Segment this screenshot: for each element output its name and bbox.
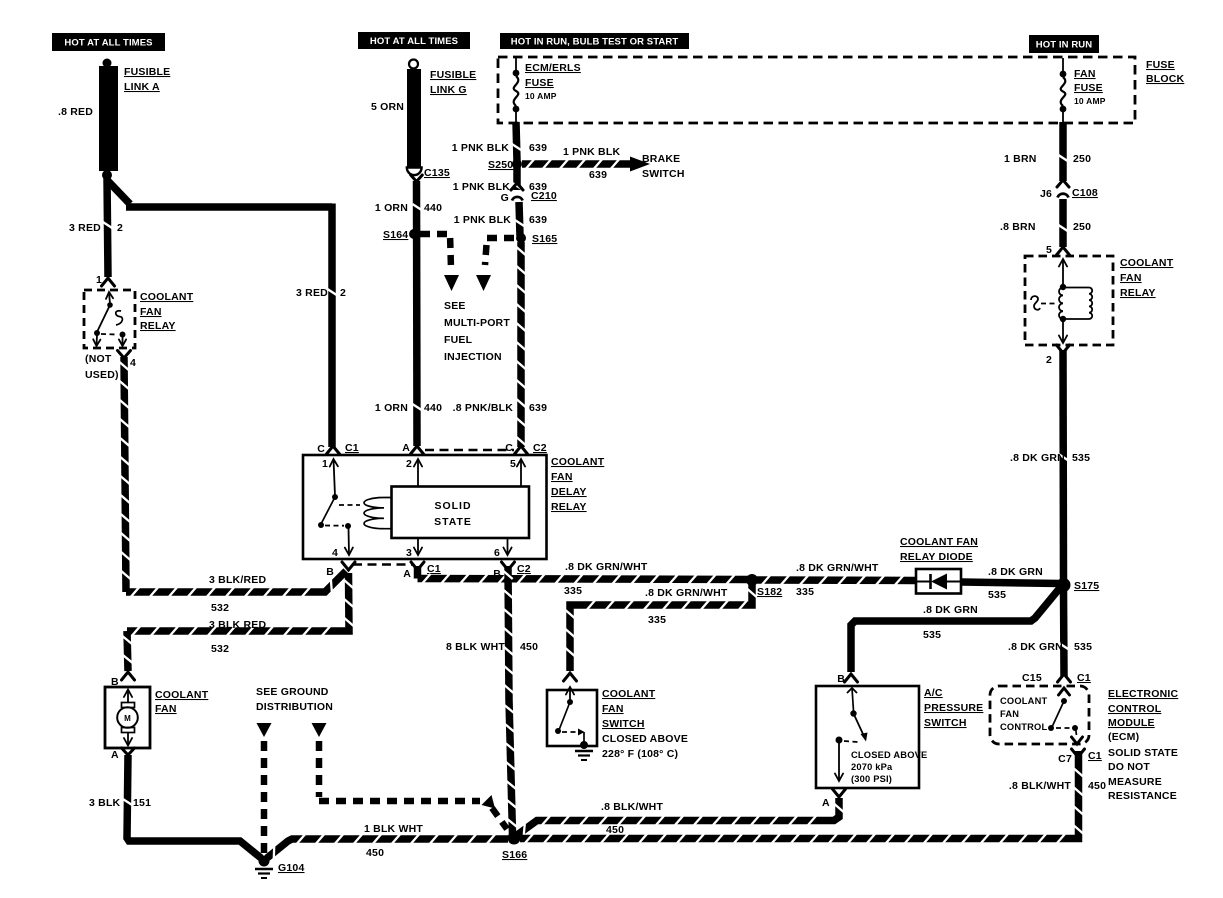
svg-text:335: 335 — [648, 614, 666, 626]
svg-text:FUSIBLE: FUSIBLE — [430, 69, 476, 81]
svg-text:535: 535 — [1074, 641, 1092, 653]
fuse block outline — [498, 57, 1135, 123]
dashed branch to multi-port fuel injection (left) — [420, 234, 459, 291]
svg-text:532: 532 — [211, 643, 229, 655]
delay relay pin C C1 terminal — [317, 442, 359, 455]
svg-text:.8 PNK/BLK: .8 PNK/BLK — [453, 402, 514, 414]
svg-text:S164: S164 — [383, 229, 408, 241]
wire 3 BLK 151 — [123, 755, 261, 858]
splice S166 label — [502, 849, 527, 861]
delay relay pin 6 arrow — [494, 538, 512, 559]
ecm pin C15 C1 terminal — [1022, 672, 1091, 684]
coolant fan switch note — [602, 733, 688, 760]
svg-text:C210: C210 — [531, 190, 557, 202]
wire label .8 DK GRN 535 (branch) — [923, 604, 978, 641]
delay relay pin 3 arrow — [406, 538, 422, 559]
svg-text:639: 639 — [529, 142, 547, 154]
svg-text:FUSE: FUSE — [1146, 59, 1175, 71]
svg-text:2: 2 — [340, 287, 346, 299]
svg-text:250: 250 — [1073, 153, 1091, 165]
wire .8 DK GRN/WHT 335 (pin3 to S182) — [418, 566, 749, 584]
wire label .8 BLK/WHT 450 (right) — [1009, 780, 1106, 792]
fusible link G label — [430, 69, 476, 96]
coolant fan switch S1 contacts — [555, 687, 585, 743]
svg-text:440: 440 — [424, 202, 442, 214]
svg-text:MULTI-PORT: MULTI-PORT — [444, 317, 510, 329]
svg-text:S182: S182 — [757, 586, 782, 598]
svg-text:3 BLK/RED: 3 BLK/RED — [209, 574, 266, 586]
see multi-port fuel injection label — [444, 300, 510, 363]
svg-text:FUSIBLE: FUSIBLE — [124, 66, 170, 78]
delay relay connector dash (bottom) — [353, 563, 412, 566]
coolant fan relay diode D1 — [916, 569, 961, 594]
a/c pressure switch outline — [816, 686, 919, 788]
svg-text:S166: S166 — [502, 849, 527, 861]
ecm coolant fan control label — [1000, 696, 1047, 732]
svg-text:SWITCH: SWITCH — [924, 717, 967, 729]
svg-text:1: 1 — [322, 458, 328, 470]
wire 1 BRN 250 — [1058, 122, 1067, 181]
svg-text:.8 DK GRN: .8 DK GRN — [923, 604, 978, 616]
wire label 3 RED 2 (branch) — [296, 287, 346, 299]
svg-text:B: B — [326, 566, 334, 578]
wire label 1 PNK BLK 639 (brake) — [563, 146, 620, 181]
coolant fan relay (right) label — [1120, 257, 1174, 299]
svg-text:SEE: SEE — [444, 300, 466, 312]
svg-text:S165: S165 — [532, 233, 557, 245]
coolant fan relay (left) pin 1 — [96, 274, 115, 286]
svg-text:RELAY DIODE: RELAY DIODE — [900, 551, 973, 563]
fuse ECM/ERLS label — [525, 62, 581, 101]
wire 1 PNK BLK 639 (C210 to S165) — [515, 202, 524, 236]
svg-text:A: A — [111, 749, 119, 761]
svg-text:COOLANT: COOLANT — [1120, 257, 1174, 269]
bus label HOT IN RUN, BULB TEST OR START — [500, 33, 689, 49]
coolant fan motor symbol — [117, 690, 138, 746]
bus label HOT AT ALL TIMES (left) — [52, 33, 165, 51]
svg-text:C2: C2 — [533, 442, 547, 454]
svg-text:ELECTRONIC: ELECTRONIC — [1108, 688, 1178, 700]
wire label .8 DK GRN 535 (upper) — [1010, 452, 1090, 464]
see ground distribution label — [256, 686, 333, 713]
svg-text:C1: C1 — [345, 442, 359, 454]
fuse ECM/ERLS — [513, 58, 520, 123]
connector C210 — [501, 183, 557, 204]
splice S164 — [409, 229, 419, 239]
coolant fan delay relay outline — [303, 455, 547, 559]
svg-text:335: 335 — [564, 585, 582, 597]
svg-text:.8 BLK/WHT: .8 BLK/WHT — [1009, 780, 1071, 792]
wire .8 BLK/WHT 450 (ECM to S166) — [520, 751, 1083, 843]
splice S164 label — [383, 229, 408, 241]
coolant fan relay (left) label — [140, 291, 194, 332]
coolant fan relay (right) outline — [1025, 256, 1113, 345]
coolant fan relay (right) coil K1 — [1059, 259, 1092, 343]
svg-text:.8 DK GRN: .8 DK GRN — [988, 566, 1043, 578]
wire 1 ORN 440 — [411, 175, 423, 446]
coolant fan outline — [105, 687, 150, 748]
svg-text:639: 639 — [589, 169, 607, 181]
wire .8 PNK/BLK 639 — [516, 242, 525, 447]
svg-text:COOLANT: COOLANT — [1000, 696, 1047, 706]
wire .8 DK GRN 535 (relay to S175) — [1058, 350, 1067, 580]
wire 3 BLK/RED 532 — [119, 357, 346, 597]
wire label 1 BLK WHT 450 — [364, 823, 423, 859]
svg-text:1 PNK BLK: 1 PNK BLK — [454, 214, 511, 226]
svg-text:532: 532 — [211, 602, 229, 614]
wire .8 BRN 250 — [1058, 199, 1067, 247]
coolant fan relay (right) pin 5 — [1046, 244, 1070, 256]
bus label HOT IN RUN (right) — [1029, 35, 1099, 53]
wire label .8 BLK/WHT 450 (left) — [601, 801, 663, 836]
svg-text:SWITCH: SWITCH — [602, 718, 645, 730]
wire .8 DK GRN 535 (S175 to A/C switch) — [851, 589, 1059, 672]
fuse FAN — [1060, 58, 1067, 123]
solid state label — [434, 500, 472, 528]
splice S175 label — [1074, 580, 1099, 592]
delay relay switch — [318, 494, 360, 529]
svg-text:1 PNK BLK: 1 PNK BLK — [452, 142, 509, 154]
svg-text:(NOT: (NOT — [85, 353, 112, 365]
wire 1 PNK BLK 639 (fuse to S250) — [512, 122, 521, 161]
svg-text:4: 4 — [130, 357, 136, 369]
svg-text:535: 535 — [988, 589, 1006, 601]
svg-text:RELAY: RELAY — [551, 501, 587, 513]
svg-text:FAN: FAN — [1000, 709, 1019, 719]
svg-text:A: A — [822, 797, 830, 809]
svg-text:440: 440 — [424, 402, 442, 414]
svg-text:ECM/ERLS: ECM/ERLS — [525, 62, 581, 74]
svg-text:2: 2 — [117, 222, 123, 234]
svg-text:1 BLK WHT: 1 BLK WHT — [364, 823, 423, 835]
svg-text:C135: C135 — [424, 167, 450, 179]
wire .8 DK GRN 535 (diode to S175) — [961, 582, 1060, 584]
svg-text:639: 639 — [529, 214, 547, 226]
wire .8 DK GRN/WHT 335 (S182 branch to fan switch) — [565, 584, 756, 671]
delay relay pin 1 arrow — [322, 458, 338, 496]
wire 3 RED to coolant fan relay — [103, 177, 112, 277]
svg-text:FUEL: FUEL — [444, 334, 473, 346]
splice S182 — [746, 574, 758, 586]
svg-text:LINK G: LINK G — [430, 84, 467, 96]
svg-text:450: 450 — [1088, 780, 1106, 792]
svg-text:.8 DK GRN/WHT: .8 DK GRN/WHT — [796, 562, 879, 574]
svg-text:G104: G104 — [278, 862, 305, 874]
svg-text:DO NOT: DO NOT — [1108, 761, 1150, 773]
ground G104 label — [278, 862, 305, 874]
svg-text:DISTRIBUTION: DISTRIBUTION — [256, 701, 333, 713]
svg-text:5 ORN: 5 ORN — [371, 101, 404, 113]
svg-text:FUSE: FUSE — [525, 77, 554, 89]
svg-text:M: M — [124, 714, 131, 723]
fuse FAN label — [1074, 68, 1106, 106]
a/c pressure switch pin A — [822, 789, 846, 809]
svg-text:C1: C1 — [1077, 672, 1091, 684]
wire 3 RED branch to delay relay pin 1 — [107, 180, 337, 447]
svg-text:3 RED: 3 RED — [69, 222, 101, 234]
wire label 1 PNK BLK 639 (1) — [452, 142, 547, 154]
wire 3 BLK RED 532 — [123, 573, 354, 671]
svg-text:.8 DK GRN/WHT: .8 DK GRN/WHT — [565, 561, 648, 573]
coolant fan relay (right) switch — [1031, 296, 1057, 310]
bus label HOT AT ALL TIMES (center) — [358, 32, 470, 49]
svg-text:FAN: FAN — [1074, 68, 1096, 80]
svg-text:4: 4 — [332, 547, 338, 559]
svg-text:HOT IN RUN, BULB TEST OR START: HOT IN RUN, BULB TEST OR START — [511, 36, 679, 47]
coolant fan pin B — [111, 672, 135, 688]
svg-text:.8 DK GRN/WHT: .8 DK GRN/WHT — [645, 587, 728, 599]
delay relay connector dash (top) — [425, 449, 514, 452]
svg-text:450: 450 — [366, 847, 384, 859]
wire label 1 BRN 250 — [1004, 153, 1091, 165]
svg-text:C7: C7 — [1058, 753, 1072, 765]
svg-text:FAN: FAN — [551, 471, 573, 483]
coolant fan switch pin terminal — [564, 673, 577, 681]
coolant fan relay (left) contacts — [93, 292, 126, 346]
a/c pressure switch S2 contacts — [835, 688, 868, 781]
svg-text:639: 639 — [529, 402, 547, 414]
svg-text:228° F (108° C): 228° F (108° C) — [602, 748, 678, 760]
svg-text:5: 5 — [1046, 244, 1052, 256]
coolant fan label — [155, 689, 209, 715]
coolant fan relay diode label — [900, 536, 978, 563]
svg-text:250: 250 — [1073, 221, 1091, 233]
svg-text:3 BLK RED: 3 BLK RED — [209, 619, 266, 631]
a/c pressure switch label — [924, 687, 983, 729]
fusible link G — [407, 60, 422, 176]
svg-text:FAN: FAN — [602, 703, 624, 715]
a/c pressure switch note — [851, 750, 927, 784]
svg-text:LINK A: LINK A — [124, 81, 160, 93]
svg-text:SWITCH: SWITCH — [642, 168, 685, 180]
wire label 3 BLK RED 532 — [209, 619, 266, 655]
svg-text:1 BRN: 1 BRN — [1004, 153, 1037, 165]
svg-text:COOLANT: COOLANT — [551, 456, 605, 468]
svg-text:3 RED: 3 RED — [296, 287, 328, 299]
svg-text:J6: J6 — [1040, 188, 1052, 200]
svg-text:SOLID: SOLID — [434, 500, 471, 512]
svg-text:CONTROL: CONTROL — [1108, 703, 1162, 715]
wire 8 BLK WHT 450 (pin6 to S166) — [503, 566, 517, 834]
wire label .8 DK GRN/WHT 335 (2) — [645, 587, 728, 626]
fusible link A — [99, 59, 118, 181]
wire label 8 BLK WHT 450 — [446, 641, 538, 653]
svg-text:C: C — [505, 442, 513, 454]
coolant fan relay (left) pin 4 + not used — [85, 351, 136, 382]
splice S182 label — [757, 586, 782, 598]
svg-text:6: 6 — [494, 547, 500, 559]
coolant fan switch ground — [575, 741, 593, 760]
wire .8 DK GRN 535 (S175 to ECM) — [1059, 589, 1068, 676]
a/c pressure switch pin B — [837, 673, 857, 685]
wire label .8 BRN 250 — [1000, 221, 1091, 233]
delay relay coil — [364, 498, 391, 529]
ground distribution arrow 1 — [257, 723, 272, 853]
coolant fan switch label — [602, 688, 656, 730]
svg-text:2: 2 — [1046, 354, 1052, 366]
svg-text:.8 RED: .8 RED — [58, 106, 93, 118]
wire label .8 DK GRN 535 (lower) — [1008, 641, 1092, 653]
svg-text:COOLANT FAN: COOLANT FAN — [900, 536, 978, 548]
wire label 3 RED 2 (left) — [69, 222, 123, 234]
svg-text:DELAY: DELAY — [551, 486, 587, 498]
wire 1 PNK BLK 639 (S250 to C210) — [512, 166, 521, 190]
wire label 1 ORN 440 (lower) — [375, 402, 442, 414]
ecm coolant fan control outline — [990, 686, 1089, 744]
svg-text:.8 DK GRN: .8 DK GRN — [1010, 452, 1065, 464]
svg-text:HOT AT ALL TIMES: HOT AT ALL TIMES — [370, 36, 458, 47]
svg-text:FAN: FAN — [1120, 272, 1142, 284]
svg-text:C2: C2 — [517, 563, 531, 575]
svg-text:C: C — [317, 443, 325, 455]
wire label .8 DK GRN/WHT 335 (1) — [564, 561, 648, 597]
splice S165 — [516, 233, 526, 243]
svg-text:HOT IN RUN: HOT IN RUN — [1036, 39, 1092, 50]
ecm pin C7 C1 terminal — [1058, 749, 1102, 765]
svg-text:MEASURE: MEASURE — [1108, 776, 1162, 788]
svg-text:USED): USED) — [85, 369, 119, 381]
svg-text:A/C: A/C — [924, 687, 943, 699]
svg-text:C15: C15 — [1022, 672, 1042, 684]
ground G104 — [255, 856, 273, 879]
svg-text:1 ORN: 1 ORN — [375, 402, 408, 414]
wire label .8 PNK/BLK 639 — [453, 402, 547, 414]
wire .8 BLK/WHT 450 (A/C to S166) — [517, 798, 844, 836]
delay relay pin 5 arrow — [510, 458, 525, 486]
wire label 5 ORN — [371, 101, 404, 113]
ground distribution arrow 2 — [312, 723, 508, 829]
wire label .8 DK GRN/WHT 335 (3) — [796, 562, 879, 598]
dashed branch to multi-port fuel injection (right) — [476, 238, 514, 291]
wire label .8 DK GRN 535 (diode) — [988, 566, 1043, 601]
splice S175 — [1057, 578, 1071, 592]
splice S250 label — [488, 159, 513, 171]
wire .8 DK GRN/WHT 335 (S182 to diode) — [757, 575, 915, 585]
wire 1 PNK BLK 639 to brake switch — [522, 157, 650, 172]
wire label 1 ORN 440 (upper) — [375, 202, 442, 214]
svg-text:.8 BRN: .8 BRN — [1000, 221, 1036, 233]
svg-text:450: 450 — [520, 641, 538, 653]
svg-text:SEE GROUND: SEE GROUND — [256, 686, 329, 698]
svg-text:5: 5 — [510, 458, 516, 470]
svg-text:CLOSED ABOVE: CLOSED ABOVE — [851, 750, 927, 760]
svg-text:COOLANT: COOLANT — [155, 689, 209, 701]
fuse block label — [1146, 59, 1185, 85]
svg-text:C1: C1 — [427, 563, 441, 575]
delay relay pin 4 arrow — [332, 528, 353, 559]
svg-text:3 BLK: 3 BLK — [89, 797, 121, 809]
svg-text:3: 3 — [406, 547, 412, 559]
svg-text:MODULE: MODULE — [1108, 717, 1155, 729]
solid state box — [392, 487, 530, 539]
wire label 1 PNK BLK 639 (3) — [454, 214, 547, 226]
delay relay label — [551, 456, 605, 513]
svg-text:FUSE: FUSE — [1074, 82, 1103, 94]
svg-text:CONTROL: CONTROL — [1000, 722, 1047, 732]
svg-text:C1: C1 — [1088, 750, 1102, 762]
wire label .8 RED — [58, 106, 93, 118]
brake switch label — [642, 153, 685, 180]
svg-text:535: 535 — [923, 629, 941, 641]
delay relay pin A C1 terminal (3) — [403, 562, 441, 580]
delay relay pin B terminal (4) — [326, 562, 355, 578]
svg-text:1 PNK BLK: 1 PNK BLK — [563, 146, 620, 158]
svg-text:151: 151 — [133, 797, 151, 809]
svg-text:S250: S250 — [488, 159, 513, 171]
svg-text:1 ORN: 1 ORN — [375, 202, 408, 214]
delay relay pin C C2 terminal — [505, 442, 547, 454]
connector C135 label — [424, 167, 450, 179]
svg-text:COOLANT: COOLANT — [140, 291, 194, 303]
svg-text:C108: C108 — [1072, 187, 1098, 199]
wire label 3 BLK/RED 532 — [209, 574, 266, 614]
svg-text:PRESSURE: PRESSURE — [924, 702, 983, 714]
svg-text:S175: S175 — [1074, 580, 1099, 592]
svg-text:BRAKE: BRAKE — [642, 153, 680, 165]
delay relay pin A terminal — [402, 442, 423, 454]
svg-text:535: 535 — [1072, 452, 1090, 464]
coolant fan switch outline — [547, 690, 597, 746]
coolant fan relay (right) pin 2 — [1046, 345, 1070, 366]
svg-text:FAN: FAN — [140, 306, 162, 318]
svg-text:(ECM): (ECM) — [1108, 731, 1139, 743]
svg-text:.8 BLK/WHT: .8 BLK/WHT — [601, 801, 663, 813]
connector J6 C108 — [1040, 180, 1098, 200]
delay relay pin B C2 terminal (6) — [493, 562, 531, 580]
svg-text:BLOCK: BLOCK — [1146, 73, 1185, 85]
svg-text:A: A — [402, 442, 410, 454]
svg-text:RESISTANCE: RESISTANCE — [1108, 790, 1177, 802]
splice S166 — [508, 832, 521, 845]
coolant fan relay (left) outline — [84, 290, 135, 348]
ecm label — [1108, 688, 1178, 802]
svg-text:RELAY: RELAY — [140, 320, 176, 332]
splice S165 label — [532, 233, 557, 245]
fusible link A label — [124, 66, 170, 93]
ecm switch contacts — [1048, 688, 1083, 744]
svg-text:10 AMP: 10 AMP — [525, 91, 557, 101]
svg-text:2: 2 — [406, 458, 412, 470]
coolant fan pin A — [111, 748, 135, 761]
svg-text:SOLID STATE: SOLID STATE — [1108, 747, 1178, 759]
svg-text:FAN: FAN — [155, 703, 177, 715]
svg-text:RELAY: RELAY — [1120, 287, 1156, 299]
wire label 3 BLK 151 — [89, 797, 151, 809]
svg-text:10 AMP: 10 AMP — [1074, 96, 1106, 106]
svg-text:A: A — [403, 568, 411, 580]
svg-text:.8 DK GRN: .8 DK GRN — [1008, 641, 1063, 653]
svg-text:G: G — [501, 192, 509, 204]
svg-text:STATE: STATE — [434, 516, 472, 528]
splice S250 — [512, 159, 522, 169]
svg-text:8 BLK WHT: 8 BLK WHT — [446, 641, 505, 653]
wire label 1 PNK BLK 639 (2) — [453, 181, 547, 193]
delay relay pin 2 arrow — [406, 458, 422, 486]
svg-text:2070 kPa: 2070 kPa — [851, 762, 893, 772]
svg-text:335: 335 — [796, 586, 814, 598]
svg-text:COOLANT: COOLANT — [602, 688, 656, 700]
svg-text:HOT AT ALL TIMES: HOT AT ALL TIMES — [64, 37, 152, 48]
svg-text:CLOSED ABOVE: CLOSED ABOVE — [602, 733, 688, 745]
wire 1 BLK WHT 450 — [267, 834, 508, 858]
svg-text:INJECTION: INJECTION — [444, 351, 502, 363]
svg-text:(300 PSI): (300 PSI) — [851, 774, 892, 784]
